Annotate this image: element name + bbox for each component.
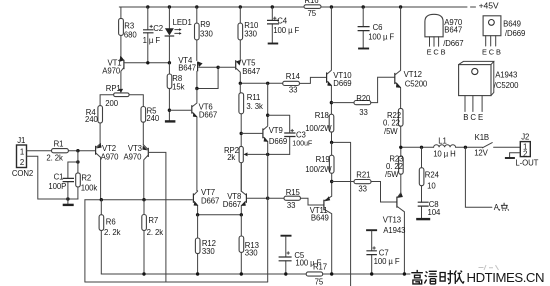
resistor R1 bbox=[27, 140, 95, 163]
transistor VT7 bbox=[193, 188, 219, 215]
svg-text:R6: R6 bbox=[106, 217, 116, 226]
svg-text:33: 33 bbox=[358, 184, 366, 193]
svg-text:C6: C6 bbox=[373, 23, 383, 32]
svg-text:B647: B647 bbox=[444, 26, 462, 35]
resistor R8 bbox=[167, 63, 184, 110]
resistor R21 bbox=[332, 171, 371, 194]
ground input ground bbox=[67, 199, 69, 204]
svg-text:D667: D667 bbox=[223, 200, 241, 209]
connector J2 bbox=[520, 133, 530, 159]
svg-text:100 µ F: 100 µ F bbox=[368, 32, 394, 41]
svg-text:33: 33 bbox=[287, 201, 295, 210]
ground R8 ground bbox=[168, 110, 170, 120]
resistor R7 bbox=[142, 200, 163, 274]
potentiometer RP1 bbox=[100, 84, 143, 108]
svg-text:A1943: A1943 bbox=[383, 226, 405, 235]
svg-text:J2: J2 bbox=[521, 133, 529, 142]
svg-text:/5W: /5W bbox=[384, 127, 398, 136]
ground J2 pin2 ground bbox=[510, 153, 521, 157]
capacitor C1 bbox=[48, 162, 78, 199]
transistor package TO-3P A1943/C5200 bbox=[459, 61, 520, 122]
resistor R9 bbox=[195, 7, 214, 61]
wire R14 to VT10 base bbox=[300, 77, 326, 83]
transistor VT9 bbox=[241, 115, 287, 154]
wire +45V top rail bbox=[119, 6, 475, 8]
wire collector node line y200 bbox=[85, 199, 192, 201]
svg-text:/D667: /D667 bbox=[443, 39, 463, 48]
svg-text:100/2W: 100/2W bbox=[305, 124, 332, 133]
wire VT7-VT8 emitter line bbox=[198, 214, 242, 216]
capacitor C7 bbox=[366, 230, 400, 274]
svg-text:2: 2 bbox=[523, 149, 527, 158]
svg-text:C5200: C5200 bbox=[405, 79, 428, 88]
svg-text:R24: R24 bbox=[425, 170, 440, 179]
svg-text:R7: R7 bbox=[148, 216, 158, 225]
svg-text:C4: C4 bbox=[277, 17, 288, 26]
svg-text:33: 33 bbox=[359, 108, 367, 117]
svg-text:A1943: A1943 bbox=[495, 70, 517, 79]
wire VT4 collector-base loop bbox=[197, 67, 218, 88]
wire VT3 base to feedback column bbox=[149, 152, 166, 282]
wire VT1 base line to C2/LED1 bbox=[125, 62, 169, 64]
svg-text:100k: 100k bbox=[81, 183, 98, 192]
wire output node line bbox=[401, 146, 521, 148]
svg-text:75: 75 bbox=[308, 9, 317, 18]
LED D1 LED1 bbox=[165, 7, 192, 63]
svg-text:RP1: RP1 bbox=[106, 84, 121, 93]
svg-text:C2: C2 bbox=[153, 24, 163, 33]
resistor R10 bbox=[238, 7, 259, 61]
svg-text:330: 330 bbox=[202, 247, 215, 256]
svg-text:330: 330 bbox=[200, 29, 213, 38]
resistor R3 bbox=[119, 7, 138, 57]
transistor VT10 bbox=[327, 7, 353, 103]
svg-text:3. 3k: 3. 3k bbox=[246, 102, 263, 111]
svg-text:240: 240 bbox=[85, 115, 98, 124]
capacitor C4 bbox=[267, 7, 300, 44]
transistor package TO-92 A970/B647/D667 bbox=[425, 14, 464, 56]
svg-text:B649: B649 bbox=[503, 20, 521, 29]
svg-text:A970: A970 bbox=[124, 153, 143, 162]
svg-text:100uF: 100uF bbox=[292, 138, 313, 147]
resistor R13 bbox=[239, 215, 259, 274]
svg-text:D669: D669 bbox=[269, 137, 287, 146]
transistor VT8 bbox=[223, 163, 268, 215]
resistor R15 bbox=[268, 188, 301, 210]
svg-text:R17: R17 bbox=[313, 263, 327, 272]
svg-text:330: 330 bbox=[245, 248, 258, 257]
wire R20 to VT12 base bbox=[371, 77, 394, 102]
resistor R18 bbox=[305, 103, 334, 143]
inductor L1 bbox=[433, 136, 456, 158]
svg-text:LED1: LED1 bbox=[173, 18, 192, 27]
svg-text:2. 2k: 2. 2k bbox=[104, 228, 121, 237]
svg-text:/C5200: /C5200 bbox=[494, 81, 519, 90]
wire VAS node line to R14 bbox=[240, 82, 282, 84]
svg-text:D667: D667 bbox=[199, 111, 217, 120]
svg-text:B647: B647 bbox=[242, 67, 260, 76]
svg-text:R2: R2 bbox=[81, 174, 91, 183]
svg-text:J1: J1 bbox=[17, 136, 25, 145]
svg-text:2k: 2k bbox=[227, 153, 235, 162]
svg-text:15k: 15k bbox=[172, 83, 184, 92]
transistor VT4 bbox=[178, 56, 218, 89]
transistor VT11 bbox=[310, 182, 332, 275]
svg-text:200: 200 bbox=[105, 99, 118, 108]
svg-text:10: 10 bbox=[427, 181, 436, 190]
resistor R22 bbox=[383, 108, 403, 147]
capacitor C5 bbox=[279, 236, 322, 274]
wire R21 to VT13 base bbox=[371, 182, 396, 203]
svg-text:HDTIMES.CN: HDTIMES.CN bbox=[467, 270, 545, 285]
wire R18-R19 node to dropline bbox=[332, 142, 351, 286]
wire A-point branch bbox=[465, 147, 492, 207]
svg-text:VT13: VT13 bbox=[383, 216, 401, 225]
svg-text:240: 240 bbox=[146, 114, 159, 123]
wire bottom rail bbox=[101, 273, 410, 275]
switch K1B bbox=[474, 133, 492, 158]
wire feedback left drop bbox=[84, 200, 86, 282]
svg-text:R19: R19 bbox=[316, 155, 330, 164]
connector J1 bbox=[12, 136, 33, 178]
resistor R23 bbox=[385, 147, 403, 193]
wire lower feedback line bbox=[85, 281, 268, 283]
svg-text:C1: C1 bbox=[54, 172, 64, 181]
transistor VT1 bbox=[102, 56, 124, 89]
resistor R17 bbox=[306, 263, 327, 286]
svg-text:E C B: E C B bbox=[482, 48, 501, 57]
capacitor C8 bbox=[416, 200, 441, 219]
svg-text:2. 2k: 2. 2k bbox=[147, 228, 164, 237]
svg-text:L-OUT: L-OUT bbox=[515, 159, 538, 168]
resistor R5 bbox=[141, 106, 160, 144]
svg-text:K1B: K1B bbox=[475, 133, 489, 142]
svg-text:A970: A970 bbox=[101, 153, 120, 162]
resistor R12 bbox=[195, 215, 216, 274]
svg-text:A970: A970 bbox=[102, 67, 121, 76]
svg-text:R9: R9 bbox=[200, 20, 210, 29]
wire R15 to VT11 base bbox=[301, 198, 324, 205]
svg-text:/D669: /D669 bbox=[505, 29, 525, 38]
svg-text:C7: C7 bbox=[379, 248, 389, 257]
transistor VT12 bbox=[395, 7, 428, 108]
transistor VT6 bbox=[192, 89, 217, 191]
svg-text:VT12: VT12 bbox=[404, 70, 422, 79]
svg-text:A: A bbox=[494, 203, 500, 212]
transistor VT3 bbox=[124, 144, 149, 200]
svg-text:1: 1 bbox=[20, 147, 24, 156]
svg-text:B647: B647 bbox=[178, 64, 196, 73]
svg-text:+45V: +45V bbox=[479, 1, 499, 11]
svg-text:R1: R1 bbox=[54, 140, 64, 149]
svg-text:R20: R20 bbox=[356, 94, 371, 103]
svg-text:12V: 12V bbox=[474, 149, 488, 158]
resistor R4 bbox=[85, 106, 103, 144]
svg-text:CON2: CON2 bbox=[12, 169, 33, 178]
resistor R24 bbox=[419, 147, 439, 202]
svg-text:100/2W: 100/2W bbox=[305, 165, 332, 174]
svg-text:1 µ F: 1 µ F bbox=[143, 36, 161, 45]
svg-text:R3: R3 bbox=[124, 21, 134, 30]
resistor R11 bbox=[239, 83, 263, 133]
svg-text:330: 330 bbox=[244, 29, 257, 38]
resistor R20 bbox=[331, 94, 371, 117]
svg-text:2: 2 bbox=[20, 158, 24, 167]
transistor VT13 bbox=[383, 193, 406, 274]
svg-text:R21: R21 bbox=[356, 171, 370, 180]
capacitor C3 bbox=[268, 115, 313, 154]
resistor R6 bbox=[99, 200, 121, 274]
capacitor C6 bbox=[358, 7, 395, 49]
resistor R14 bbox=[283, 72, 301, 94]
svg-text:100P: 100P bbox=[48, 182, 66, 191]
svg-text:L1: L1 bbox=[438, 136, 446, 145]
capacitor C2 bbox=[143, 7, 163, 63]
wire VbeM lower column to feedback bbox=[267, 154, 269, 282]
svg-text:R14: R14 bbox=[286, 72, 301, 81]
watermark HDTIMES.CN bbox=[411, 270, 544, 285]
wire VbeM top column bbox=[267, 83, 269, 115]
svg-text:B C E: B C E bbox=[463, 113, 483, 122]
svg-text:VT9: VT9 bbox=[269, 126, 283, 135]
svg-text:75: 75 bbox=[315, 277, 324, 286]
transistor package TO-126 B649/D669 bbox=[482, 16, 525, 57]
node top rail junctions bbox=[146, 5, 149, 8]
watermark faint marks bbox=[479, 265, 499, 270]
potentiometer RP2 bbox=[224, 133, 290, 191]
svg-text:E C B: E C B bbox=[427, 48, 446, 57]
svg-text:33: 33 bbox=[289, 86, 297, 95]
node A label bbox=[494, 203, 509, 212]
svg-text:R15: R15 bbox=[286, 188, 301, 197]
transistor VT5 bbox=[218, 59, 260, 84]
svg-text:/5W: /5W bbox=[385, 170, 399, 179]
resistor R19 bbox=[305, 142, 334, 181]
svg-text:100 µ F: 100 µ F bbox=[374, 257, 400, 266]
svg-text:B649: B649 bbox=[311, 214, 329, 223]
transistor VT2 bbox=[96, 143, 120, 199]
wire J1 pin2 to input ground bbox=[27, 156, 79, 199]
svg-text:D669: D669 bbox=[333, 79, 351, 88]
svg-text:10 µ H: 10 µ H bbox=[433, 150, 456, 159]
resistor R2 bbox=[76, 151, 98, 199]
svg-text:680: 680 bbox=[124, 31, 137, 40]
svg-text:2. 2k: 2. 2k bbox=[46, 154, 63, 163]
svg-text:R16: R16 bbox=[305, 0, 319, 5]
svg-text:D667: D667 bbox=[201, 196, 219, 205]
svg-text:R18: R18 bbox=[315, 111, 329, 120]
svg-text:100 µ F: 100 µ F bbox=[273, 26, 299, 35]
svg-text:104: 104 bbox=[428, 208, 441, 217]
resistor R16 bbox=[304, 0, 321, 18]
wire R8 to VT6 base bbox=[169, 109, 190, 111]
